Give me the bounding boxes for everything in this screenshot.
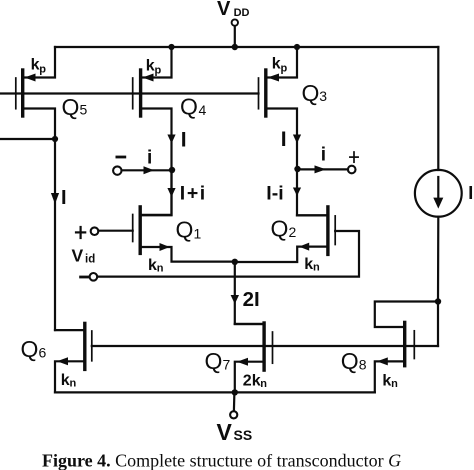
svg-text:k: k: [272, 56, 281, 73]
svg-text:I: I: [61, 187, 67, 209]
node inverting input terminal lower: [90, 273, 98, 281]
svg-text:Q: Q: [271, 216, 289, 242]
svg-text:k: k: [304, 256, 313, 273]
svg-text:Figure 4. Complete structure o: Figure 4. Complete structure of transcon…: [42, 451, 401, 470]
node Q4 drain junction: [169, 167, 175, 173]
svg-text:5: 5: [80, 102, 88, 118]
caption Figure 4: [42, 451, 401, 470]
arrow 2I: [231, 295, 239, 304]
svg-text:I: I: [181, 129, 187, 152]
svg-text:n: n: [70, 378, 77, 390]
svg-text:6: 6: [39, 345, 47, 361]
svg-text:DD: DD: [234, 7, 250, 19]
svg-text:I: I: [281, 128, 287, 151]
node current source to Q8 junction: [435, 298, 441, 304]
node Q4 source at rail: [168, 44, 174, 50]
wire tail current 2I: [235, 262, 264, 324]
arrow I+i: [167, 188, 175, 197]
svg-text:2k: 2k: [243, 372, 261, 389]
svg-text:7: 7: [223, 357, 231, 373]
svg-text:n: n: [260, 378, 267, 390]
current source I: [415, 47, 462, 302]
transistor Q3: [259, 47, 302, 170]
node inverting input current terminal: [113, 166, 171, 174]
svg-text:I+i: I+i: [180, 183, 207, 205]
transistor Q8: [375, 302, 438, 393]
svg-text:n: n: [157, 263, 164, 275]
transistor Q4: [133, 47, 176, 170]
svg-text:k: k: [61, 372, 70, 389]
svg-text:1: 1: [194, 226, 202, 242]
wire bottom source rail: [55, 391, 375, 393]
node common source junction: [232, 259, 238, 265]
node Q5 drain junction: [52, 136, 58, 142]
label plus Vid: [76, 227, 85, 238]
svg-text:Q: Q: [341, 348, 359, 374]
svg-text:3: 3: [319, 88, 327, 104]
node VDD junction: [232, 44, 238, 50]
svg-text:2: 2: [289, 224, 297, 240]
transistor Q5: [16, 47, 55, 139]
power terminal VDD: [232, 19, 238, 47]
svg-text:2I: 2I: [243, 288, 260, 311]
wire PMOS gate rail: [0, 92, 259, 94]
svg-text:id: id: [85, 254, 95, 266]
node noninverting input terminal: [91, 227, 99, 235]
wire I-i branch: [297, 170, 328, 215]
svg-text:n: n: [313, 262, 320, 274]
wire output to plus terminal: [297, 168, 348, 170]
svg-text:Q: Q: [180, 94, 198, 120]
svg-text:8: 8: [359, 357, 367, 373]
svg-text:V: V: [217, 0, 231, 20]
svg-text:Q: Q: [176, 217, 194, 243]
arrow current I left branch: [51, 193, 59, 204]
svg-text:p: p: [281, 63, 288, 75]
svg-text:k: k: [382, 372, 391, 389]
wire I+i branch: [141, 170, 172, 215]
node Q3 drain junction: [294, 166, 300, 172]
svg-text:i: i: [147, 147, 152, 168]
svg-text:4: 4: [199, 102, 207, 118]
wire Q8 gate tie: [437, 302, 439, 347]
svg-text:k: k: [148, 257, 157, 274]
svg-text:I-i: I-i: [266, 182, 283, 204]
svg-text:Q: Q: [21, 336, 39, 362]
transistor Q7: [235, 323, 273, 392]
wire stub to left edge: [0, 138, 55, 140]
arrow output current i: [315, 165, 327, 173]
svg-text:p: p: [155, 65, 162, 77]
svg-text:p: p: [39, 64, 46, 76]
label minus input current: [117, 156, 125, 159]
transistor Q2: [98, 207, 360, 277]
wire NMOS mirror gate rail: [92, 345, 438, 347]
svg-text:Q: Q: [62, 94, 80, 120]
node Q3 source at rail: [294, 44, 300, 50]
wire VDD rail: [55, 46, 438, 48]
arrow input current i: [144, 166, 155, 174]
svg-text:k: k: [31, 57, 40, 74]
label minus Vid: [81, 276, 88, 279]
node output plus terminal: [348, 166, 356, 174]
node VSS junction: [232, 389, 238, 395]
svg-text:Q: Q: [302, 80, 320, 106]
svg-text:I: I: [468, 183, 473, 203]
svg-text:n: n: [391, 378, 398, 390]
transistor Q6: [55, 323, 92, 392]
svg-text:Q: Q: [205, 348, 223, 374]
arrow I-i: [293, 188, 301, 197]
svg-text:V: V: [72, 245, 84, 265]
svg-text:i: i: [321, 144, 326, 165]
label plus output: [350, 152, 358, 162]
svg-text:k: k: [146, 58, 155, 75]
svg-text:V: V: [217, 419, 233, 445]
transistor Q1: [99, 170, 235, 262]
svg-text:SS: SS: [234, 427, 253, 443]
power terminal VSS: [230, 392, 237, 418]
wire Q5 drain down to Q6: [54, 139, 56, 330]
